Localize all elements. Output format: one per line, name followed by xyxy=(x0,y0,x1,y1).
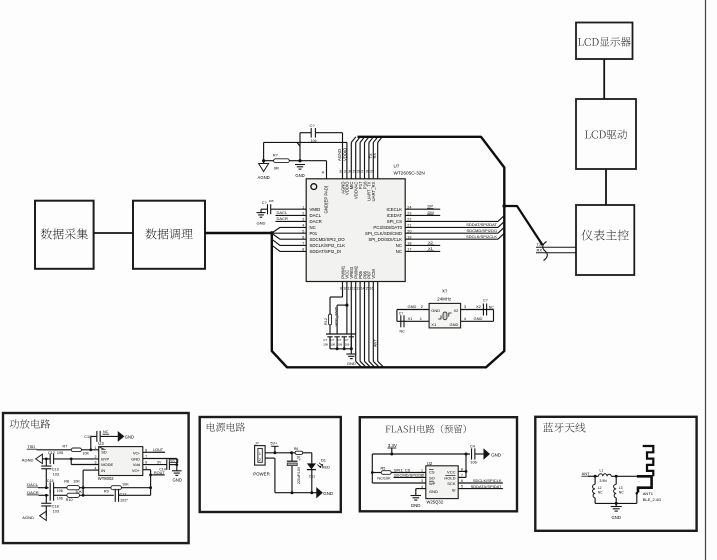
svg-text:AGND: AGND xyxy=(22,457,34,462)
svg-text:C13: C13 xyxy=(52,467,59,471)
svg-text:GND: GND xyxy=(408,304,417,309)
svg-text:R10: R10 xyxy=(66,498,73,502)
svg-text:10K: 10K xyxy=(73,480,80,484)
svg-text:2: 2 xyxy=(421,304,424,309)
svg-text:SI: SI xyxy=(452,487,456,492)
svg-text:C4: C4 xyxy=(470,445,475,449)
svg-text:C?: C? xyxy=(483,299,488,303)
svg-text:L2: L2 xyxy=(598,486,602,490)
svg-text:DACL: DACL xyxy=(310,213,322,218)
svg-text:R6: R6 xyxy=(294,447,298,451)
svg-text:DACR: DACR xyxy=(277,216,288,221)
svg-text:PC3/SDI/DAT0: PC3/SDI/DAT0 xyxy=(373,225,402,230)
svg-text:R9: R9 xyxy=(104,490,109,494)
svg-text:AGND: AGND xyxy=(22,515,34,520)
svg-text:IN: IN xyxy=(101,468,105,473)
svg-text:U2: U2 xyxy=(427,461,433,466)
svg-text:ANT: ANT xyxy=(373,339,377,347)
svg-text:SPI_CLK/SDI/CMD: SPI_CLK/SDI/CMD xyxy=(365,231,402,236)
svg-text:GND: GND xyxy=(131,457,140,462)
svg-text:U?: U? xyxy=(394,164,400,169)
svg-text:ANT: ANT xyxy=(582,472,590,476)
svg-text:VCC: VCC xyxy=(447,469,456,474)
svg-text:2: 2 xyxy=(421,474,423,478)
svg-text:C11: C11 xyxy=(309,475,315,479)
svg-text:LOUT: LOUT xyxy=(153,448,164,452)
svg-text:C10: C10 xyxy=(84,435,91,439)
svg-text:RX: RX xyxy=(537,248,543,253)
svg-text:VCC_2605: VCC_2605 xyxy=(333,306,338,326)
svg-text:-: - xyxy=(638,478,640,483)
svg-text:X1: X1 xyxy=(428,246,434,251)
svg-text:VMID: VMID xyxy=(310,207,321,212)
svg-text:WT2605C-32N: WT2605C-32N xyxy=(394,170,425,175)
svg-text:NC: NC xyxy=(400,329,406,333)
svg-text:HOLD: HOLD xyxy=(444,475,455,480)
svg-text:SD: SD xyxy=(101,449,107,454)
svg-text:SDCMD/SPI2DO: SDCMD/SPI2DO xyxy=(394,472,424,477)
svg-text:SDDAT/SPI2_DI: SDDAT/SPI2_DI xyxy=(310,249,341,254)
svg-text:SPI_DO/SDI/CLK: SPI_DO/SDI/CLK xyxy=(368,237,402,242)
svg-text:DACL: DACL xyxy=(277,210,288,215)
svg-text:SPI_CS: SPI_CS xyxy=(387,219,402,224)
svg-text:C?: C? xyxy=(330,338,334,342)
svg-text:NC: NC xyxy=(310,225,316,230)
svg-text:WP: WP xyxy=(429,481,436,486)
svg-text:NC: NC xyxy=(396,249,402,254)
svg-text:L3: L3 xyxy=(619,486,623,490)
svg-text:220uF/10V: 220uF/10V xyxy=(297,466,301,484)
svg-text:X1: X1 xyxy=(431,322,437,327)
svg-text:106: 106 xyxy=(323,343,328,347)
svg-text:J?: J? xyxy=(255,441,259,445)
svg-text:GND: GND xyxy=(257,221,266,226)
svg-text:ROUT: ROUT xyxy=(154,471,165,475)
svg-text:GND: GND xyxy=(612,515,621,520)
svg-text:TSD: TSD xyxy=(27,444,35,449)
svg-text:C15: C15 xyxy=(47,479,54,483)
svg-text:SDCMD/SPI2_DO: SDCMD/SPI2_DO xyxy=(310,237,346,242)
svg-text:X2: X2 xyxy=(453,308,459,313)
svg-text:C?: C? xyxy=(338,338,342,342)
svg-text:NC: NC xyxy=(598,491,603,495)
svg-text:NC: NC xyxy=(489,306,495,310)
svg-text:VO+: VO+ xyxy=(132,468,141,473)
svg-text:+: + xyxy=(299,457,302,462)
svg-text:10K: 10K xyxy=(75,490,82,494)
svg-text:C12: C12 xyxy=(48,451,55,455)
svg-text:105: 105 xyxy=(57,451,63,455)
svg-text:GND: GND xyxy=(450,322,459,327)
svg-text:NC: NC xyxy=(103,430,109,434)
svg-text:NC/10K: NC/10K xyxy=(377,476,391,480)
svg-text:106: 106 xyxy=(470,461,476,465)
svg-text:5V+: 5V+ xyxy=(170,459,175,463)
svg-text:DACR: DACR xyxy=(310,219,322,224)
svg-text:SDCMD/SPI2DO: SDCMD/SPI2DO xyxy=(467,228,497,233)
svg-text:3: 3 xyxy=(464,304,467,309)
svg-text:POWER: POWER xyxy=(253,471,270,476)
svg-text:106: 106 xyxy=(57,489,63,493)
svg-text:D1: D1 xyxy=(321,458,327,463)
svg-text:C17: C17 xyxy=(120,492,127,496)
svg-text:7: 7 xyxy=(461,473,463,477)
svg-text:U3: U3 xyxy=(98,441,104,446)
svg-text:GND: GND xyxy=(173,478,182,483)
svg-text:24MHz: 24MHz xyxy=(437,297,451,302)
svg-text:W25Q32: W25Q32 xyxy=(427,499,444,504)
svg-text:C?: C? xyxy=(310,123,316,128)
svg-text:R5: R5 xyxy=(381,467,386,471)
svg-text:5V+: 5V+ xyxy=(270,442,278,446)
svg-text:GND: GND xyxy=(411,503,421,508)
svg-text:10K: 10K xyxy=(122,482,129,486)
svg-text:5V: 5V xyxy=(157,461,162,465)
svg-text:2: 2 xyxy=(259,457,262,462)
svg-text:SDCLK/SPICLK: SDCLK/SPICLK xyxy=(473,478,502,483)
svg-text:R?: R? xyxy=(273,152,279,157)
svg-text:GND: GND xyxy=(125,434,134,439)
svg-text:L1: L1 xyxy=(600,468,604,472)
svg-text:GND: GND xyxy=(347,361,356,366)
svg-text:BYP: BYP xyxy=(101,457,109,462)
svg-text:3: 3 xyxy=(421,479,423,483)
svg-text:X?: X? xyxy=(442,289,448,294)
svg-text:C18: C18 xyxy=(52,505,59,509)
svg-text:WT8002: WT8002 xyxy=(98,476,114,481)
svg-text:GND(EP PAD): GND(EP PAD) xyxy=(323,185,328,213)
svg-text:1: 1 xyxy=(420,316,423,321)
svg-text:VCM: VCM xyxy=(371,269,376,279)
svg-text:RX: RX xyxy=(372,153,377,159)
svg-text:X2: X2 xyxy=(428,240,434,245)
svg-text:TX: TX xyxy=(537,242,542,247)
svg-text:NC: NC xyxy=(619,491,624,495)
svg-text:DM: DM xyxy=(428,210,434,215)
svg-text:SO: SO xyxy=(429,475,435,480)
svg-text:3.9N: 3.9N xyxy=(600,479,608,483)
svg-text:BLE_2.4G: BLE_2.4G xyxy=(643,497,661,502)
svg-text:103: 103 xyxy=(53,510,59,514)
svg-text:UART_RX: UART_RX xyxy=(371,181,376,201)
svg-text:SDCLK/SPI2_CLK: SDCLK/SPI2_CLK xyxy=(310,243,346,248)
svg-text:DACR: DACR xyxy=(27,490,38,495)
svg-text:VDDIO: VDDIO xyxy=(343,147,348,161)
svg-text:8: 8 xyxy=(461,467,463,471)
svg-text:DP: DP xyxy=(428,204,434,209)
svg-text:GND: GND xyxy=(431,308,440,313)
svg-text:106: 106 xyxy=(57,497,63,501)
svg-text:GND: GND xyxy=(474,316,483,321)
svg-text:GND: GND xyxy=(295,173,304,178)
svg-text:106: 106 xyxy=(330,343,335,347)
svg-text:106: 106 xyxy=(345,343,350,347)
svg-text:6: 6 xyxy=(461,479,463,483)
svg-text:103: 103 xyxy=(53,472,59,476)
svg-text:1: 1 xyxy=(259,451,262,456)
svg-text:5: 5 xyxy=(461,485,463,489)
svg-text:0R: 0R xyxy=(274,166,279,171)
svg-text:106: 106 xyxy=(338,343,343,347)
svg-text:X1: X1 xyxy=(408,316,414,321)
svg-text:AGND: AGND xyxy=(337,149,342,161)
svg-text:R12: R12 xyxy=(324,318,328,325)
svg-text:4: 4 xyxy=(464,316,467,321)
svg-text:CS: CS xyxy=(429,469,435,474)
svg-text:C?: C? xyxy=(323,338,327,342)
svg-text:ANT1: ANT1 xyxy=(643,491,654,496)
svg-text:ICEDAT: ICEDAT xyxy=(387,213,403,218)
svg-text:DACL: DACL xyxy=(27,482,38,487)
svg-text:R7: R7 xyxy=(63,445,68,449)
svg-text:SDCLK/SPI2CLK: SDCLK/SPI2CLK xyxy=(466,234,497,239)
svg-text:3.3V: 3.3V xyxy=(388,443,397,448)
svg-text:ICECLK: ICECLK xyxy=(386,207,402,212)
svg-text:1: 1 xyxy=(421,469,423,473)
svg-text:SDDAT/SPI2DAT: SDDAT/SPI2DAT xyxy=(466,222,497,227)
svg-text:MODE: MODE xyxy=(101,462,113,467)
svg-text:VO-: VO- xyxy=(133,451,141,456)
svg-text:P01: P01 xyxy=(310,231,318,236)
svg-text:GND: GND xyxy=(429,489,438,494)
svg-text:C?: C? xyxy=(345,338,349,342)
svg-text:RED: RED xyxy=(322,464,331,469)
svg-text:R8: R8 xyxy=(64,480,69,484)
svg-text:AGND: AGND xyxy=(258,175,270,180)
svg-text:C?: C? xyxy=(262,201,267,205)
svg-text:GND: GND xyxy=(323,491,333,496)
svg-text:102*: 102* xyxy=(120,499,128,503)
svg-text:C?: C? xyxy=(399,312,404,316)
svg-text:105: 105 xyxy=(269,199,274,203)
svg-text:SDDATA/SPIDAT: SDDATA/SPIDAT xyxy=(471,484,502,489)
svg-text:9: 9 xyxy=(340,286,342,290)
svg-text:SCK: SCK xyxy=(447,481,456,486)
svg-text:Vdd: Vdd xyxy=(133,462,140,467)
svg-text:NC: NC xyxy=(396,243,402,248)
svg-text:10K: 10K xyxy=(82,451,89,455)
svg-text:X2: X2 xyxy=(476,304,482,309)
svg-text:GND: GND xyxy=(491,452,501,457)
svg-text:4: 4 xyxy=(421,485,423,489)
